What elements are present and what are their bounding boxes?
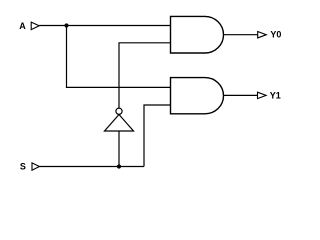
svg-text:S: S xyxy=(20,162,26,172)
input port S xyxy=(32,163,39,170)
wire inverter output up and right to gate1 bottom input xyxy=(119,43,171,108)
AND gate 1 xyxy=(171,16,224,53)
inverter bubble xyxy=(116,108,122,114)
wire S horizontal xyxy=(39,166,144,168)
wire S up and right to gate2 bottom input xyxy=(144,105,171,167)
svg-text:Y1: Y1 xyxy=(270,90,281,100)
arrow Y1 xyxy=(258,92,267,98)
wire Y0 output xyxy=(224,34,258,36)
inverter triangle xyxy=(105,115,134,132)
junction dot on A wire xyxy=(64,23,68,27)
svg-text:Y0: Y0 xyxy=(270,29,281,39)
wire Y1 output xyxy=(224,94,258,96)
AND gate 2 xyxy=(171,78,224,114)
wire A to gate1 top input xyxy=(39,25,170,27)
wire inverter input xyxy=(118,131,120,167)
input port A xyxy=(31,22,39,30)
svg-text:A: A xyxy=(19,21,26,31)
arrow Y0 xyxy=(258,32,267,38)
junction dot on S wire xyxy=(117,164,121,168)
wire A branch down and right to gate2 top input xyxy=(67,26,171,88)
